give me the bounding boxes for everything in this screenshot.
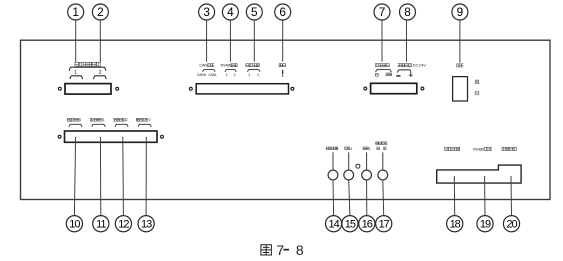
wire leader 13 [145, 137, 147, 216]
connector J4 body [65, 131, 158, 142]
callout circle 4 [222, 4, 238, 20]
svg-text:9: 9 [457, 5, 464, 19]
screw hole J2 right [291, 87, 294, 90]
wire leader 3 [206, 20, 208, 62]
connector J3 body [371, 83, 417, 93]
svg-text:12: 12 [118, 219, 129, 231]
wire leader 7 [381, 20, 383, 62]
svg-text:14: 14 [328, 219, 339, 231]
connector J1 body [65, 84, 111, 95]
pin minus [396, 75, 400, 77]
callout circle 16 [359, 216, 375, 232]
svg-text:16: 16 [362, 219, 373, 231]
callout circle 1 [68, 4, 84, 20]
terminal bracket 2 [93, 76, 106, 79]
svg-text:10: 10 [69, 219, 80, 231]
svg-text:18: 18 [450, 219, 461, 231]
svg-text:4: 4 [227, 5, 234, 19]
svg-text:1: 1 [103, 118, 105, 122]
screw hole J1 left [58, 87, 61, 90]
wire leader 10 [74, 137, 75, 216]
svg-text:15: 15 [345, 219, 356, 231]
label: electronic volume line1 (pseudo CJK) [376, 142, 388, 145]
terminal bracket line 2 [92, 124, 106, 127]
wire leader 16 [366, 180, 368, 216]
svg-text:CANL: CANL [208, 73, 217, 77]
callout circle 17 [376, 216, 392, 232]
svg-text:7: 7 [379, 5, 386, 19]
svg-text:1: 1 [351, 147, 353, 151]
label: comm port (pseudo CJK) [445, 147, 460, 150]
wire leader 14 [332, 180, 335, 216]
label: electronic volume line2 (pseudo CJK) [377, 147, 380, 150]
svg-text:1: 1 [226, 73, 228, 77]
svg-text:13: 13 [141, 219, 152, 231]
screw hole J4 right [161, 135, 164, 138]
switch OFF mark [475, 91, 479, 95]
label: ext 1 (pseudo CJK + digit) [345, 147, 351, 150]
svg-text:8: 8 [296, 242, 304, 258]
terminal bracket 1 [70, 76, 83, 79]
svg-text:1: 1 [72, 5, 79, 19]
screw hole J4 left [58, 135, 61, 138]
svg-text:2: 2 [369, 147, 371, 151]
callout circle 9 [452, 4, 468, 20]
svg-text:20: 20 [506, 219, 517, 231]
wire leader 12 [122, 137, 125, 216]
small LED circle [356, 164, 360, 168]
stub line knob 14 [332, 152, 334, 170]
svg-text:1: 1 [74, 70, 77, 76]
terminal bracket line 4 [138, 124, 151, 127]
wire leader 9 [459, 20, 461, 63]
svg-text:11: 11 [96, 219, 106, 231]
knob 16 [362, 170, 372, 180]
label: service port (pseudo CJK) [246, 64, 260, 67]
svg-text:8: 8 [404, 5, 411, 19]
wire leader 2 [99, 20, 101, 62]
svg-text:17: 17 [379, 219, 390, 231]
bracket power input [397, 70, 410, 74]
pin mark G [375, 73, 378, 76]
callout circle 18 [447, 216, 463, 232]
screw hole J2 left [189, 87, 192, 90]
svg-text:7: 7 [276, 242, 284, 258]
label: power switch (pseudo CJK) [457, 64, 464, 67]
terminal bracket line 1 [69, 124, 82, 127]
svg-text:DC24V: DC24V [413, 63, 427, 68]
callout circle 15 [342, 216, 358, 232]
svg-text:2: 2 [149, 118, 151, 122]
switch ON mark [475, 80, 479, 84]
wire leader 15 [349, 180, 350, 216]
wide brace over terminals 1-2 [69, 67, 106, 71]
caption: figure glyph (pseudo CJK) [261, 245, 272, 255]
wire leader 11 [99, 137, 101, 216]
ground pin mark [282, 70, 284, 75]
svg-text:RS485: RS485 [221, 63, 232, 68]
callout circle 6 [275, 4, 291, 20]
svg-text:2: 2 [99, 70, 102, 76]
bracket RS485 [225, 69, 236, 71]
stub line knob 15 [348, 152, 350, 170]
wire leader 6 [282, 20, 284, 62]
callout circle 11 [93, 216, 109, 232]
panel outline [21, 40, 551, 199]
label: audio line 4 (pseudo CJK + digit) [136, 118, 148, 121]
callout circle 3 [199, 4, 215, 20]
pin plus [409, 74, 413, 76]
stub line knob 16 [366, 152, 368, 170]
switch S1 body [453, 77, 468, 101]
callout circle 2 [92, 4, 108, 20]
wire leader 4 [229, 20, 231, 62]
wire leader 18 [453, 176, 455, 216]
wire leader 5 [253, 20, 255, 62]
callout circle 7 [374, 4, 390, 20]
wire leader 8 [406, 20, 408, 62]
label: volume out (pseudo CJK) [326, 147, 338, 150]
callout circle 8 [400, 4, 416, 20]
wire leader 1 [75, 20, 77, 62]
label: ext 2 (pseudo CJK + digit) [363, 147, 369, 150]
bracket service [247, 69, 260, 71]
caption: dash [283, 249, 289, 251]
stub line knob 17 [382, 152, 384, 170]
label: audio line 1 (pseudo CJK + digit) [67, 118, 79, 121]
callout circle 13 [138, 216, 154, 232]
callout circle 14 [326, 216, 342, 232]
knob 15 [344, 170, 354, 180]
bracket CAN [203, 69, 216, 71]
callout circle 5 [246, 4, 262, 20]
svg-text:2: 2 [257, 73, 259, 77]
label: audio line 2 (pseudo CJK + digit) [90, 118, 102, 121]
bracket backup [376, 70, 392, 72]
svg-text:6: 6 [279, 5, 286, 19]
label: ground (pseudo CJK) [279, 64, 286, 67]
svg-text:2: 2 [234, 73, 236, 77]
screw hole J1 right [116, 87, 119, 90]
callout circle 19 [477, 216, 493, 232]
svg-text:3: 3 [203, 5, 210, 19]
callout circle 12 [115, 216, 131, 232]
terminal bracket line 3 [115, 124, 128, 127]
knob 17 [378, 170, 388, 180]
screw hole J3 right [421, 87, 424, 90]
svg-text:1: 1 [248, 73, 250, 77]
connector J2 body [196, 84, 288, 94]
svg-text:CAN: CAN [199, 63, 207, 68]
callout circle 20 [503, 216, 519, 232]
pin mark 24V [386, 73, 392, 76]
svg-text:5: 5 [251, 5, 258, 19]
label: backup power (pseudo CJK) [375, 64, 389, 67]
wire leader 19 [484, 176, 486, 216]
svg-text:19: 19 [480, 219, 491, 231]
svg-text:RS485: RS485 [473, 146, 484, 151]
screw hole J3 left [364, 87, 367, 90]
wire leader 17 [382, 180, 385, 216]
label: monitor port (pseudo CJK) [501, 147, 516, 150]
svg-text:2: 2 [97, 5, 104, 19]
svg-text:1: 1 [80, 118, 82, 122]
label: audio line 3 (pseudo CJK + digit) [113, 118, 125, 121]
wire leader 20 [510, 176, 513, 216]
callout circle 10 [66, 216, 82, 232]
knob 14 [328, 170, 338, 180]
label: overload input (pseudo CJK) [75, 62, 100, 66]
label: power input DC24V [398, 64, 412, 67]
svg-text:CANH: CANH [197, 73, 207, 77]
stepped connector block [437, 165, 521, 183]
svg-text:2: 2 [126, 118, 128, 122]
